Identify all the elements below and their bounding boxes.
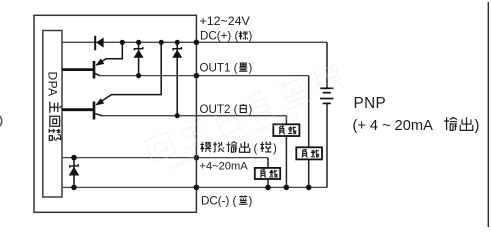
transistor Q2 emitter arrow bbox=[95, 98, 104, 105]
svg-text:OUT2 (: OUT2 ( bbox=[200, 103, 238, 116]
junction RL1 load return / DC- rail bbox=[284, 185, 290, 191]
transistor Q1 bar bbox=[93, 61, 96, 79]
label DC(-) (蓝) bbox=[201, 195, 253, 208]
transistor Q2 collector bbox=[94, 113, 102, 115]
diode D2 triangle bbox=[134, 50, 144, 58]
wire OUT1 drop to load bbox=[308, 76, 310, 188]
load box RL3 (analog) bbox=[255, 168, 280, 179]
diode D4 stem bbox=[73, 158, 75, 188]
diode D1 series on DC+ bar bbox=[94, 36, 96, 51]
diode D3 stem bbox=[176, 42, 178, 115]
diode D1 triangle bbox=[96, 38, 103, 48]
diode D2 bar bbox=[134, 47, 142, 50]
wire analog output rail bbox=[62, 157, 268, 159]
label DPA主回路 (rotated) bbox=[46, 72, 62, 141]
enclosure outer box bbox=[34, 15, 196, 212]
junction D3 top / DC+ rail bbox=[175, 40, 180, 45]
junction D3 bottom / OUT2 rail bbox=[175, 113, 180, 118]
transistor Q2 base lead bbox=[62, 108, 93, 111]
wire top rail DC+ bbox=[62, 41, 327, 43]
label 模拟输出 (橙) bbox=[200, 142, 277, 155]
load box RL1 (OUT2) bbox=[273, 124, 299, 136]
junction D2 bottom / OUT1 rail bbox=[136, 73, 141, 78]
wire analog drop to load bbox=[267, 158, 269, 188]
junction DC- terminal at enclosure edge bbox=[194, 185, 200, 191]
transistor Q1 emitter arrow bbox=[95, 59, 104, 66]
partial paren at left edge bbox=[0, 115, 2, 127]
load RL3 label 负载 bbox=[260, 170, 277, 178]
svg-text:+12~24V: +12~24V bbox=[200, 14, 251, 28]
junction D4 top / analog rail bbox=[71, 155, 77, 161]
DPA main circuit block U1 bbox=[43, 31, 62, 198]
wire OUT2 rail bbox=[102, 115, 287, 117]
label DC(+) (棕) bbox=[200, 30, 253, 43]
diode D2 stem bbox=[138, 42, 140, 75]
transistor Q1 emitter wire bbox=[97, 42, 123, 65]
battery BT1 cell bars bbox=[320, 88, 333, 103]
load RL1 label 负载 bbox=[279, 126, 296, 134]
junction RL2 load return / DC- rail bbox=[306, 185, 312, 191]
svg-text:DC(+) (: DC(+) ( bbox=[200, 30, 238, 43]
diode D4 bar bbox=[70, 164, 78, 167]
junction OUT1 terminal at enclosure edge bbox=[194, 73, 200, 79]
svg-text:DPA: DPA bbox=[46, 72, 60, 97]
svg-text:): ) bbox=[273, 142, 277, 155]
svg-text:+4~20mA: +4~20mA bbox=[200, 161, 249, 173]
svg-text:DC(-) (: DC(-) ( bbox=[201, 195, 237, 208]
wire OUT2 drop to load bbox=[285, 116, 287, 188]
svg-text:(: ( bbox=[254, 142, 258, 155]
junction D4 bottom / DC- rail bbox=[71, 185, 77, 191]
transistor Q1 collector bbox=[94, 73, 100, 76]
svg-text:OUT1 (: OUT1 ( bbox=[200, 61, 238, 74]
label (+ 4 ~ 20mA 输出) bbox=[353, 117, 480, 134]
right page border line bbox=[487, 2, 489, 227]
junction Q2 emitter / DC+ rail bbox=[159, 40, 164, 45]
diode D3 bar bbox=[173, 47, 181, 50]
diode D3 triangle bbox=[172, 50, 182, 58]
label OUT2 (白) bbox=[200, 103, 253, 116]
watermark bbox=[143, 60, 351, 176]
svg-text:): ) bbox=[249, 61, 253, 74]
svg-text:): ) bbox=[475, 118, 480, 134]
load box RL2 (OUT1) bbox=[296, 147, 322, 159]
svg-text:): ) bbox=[249, 30, 253, 43]
svg-text:(+ 4 ~ 20mA: (+ 4 ~ 20mA bbox=[353, 118, 434, 134]
junction DC+ terminal at enclosure edge bbox=[194, 40, 200, 46]
svg-text:PNP: PNP bbox=[354, 95, 387, 112]
transistor Q1 base lead bbox=[62, 68, 93, 71]
svg-text:): ) bbox=[249, 195, 253, 208]
load RL2 label 负载 bbox=[302, 150, 319, 158]
junction D2 anode-top / DC+ rail bbox=[136, 40, 141, 45]
diode D4 triangle bbox=[69, 167, 80, 176]
wire OUT1 rail bbox=[99, 75, 309, 77]
wire DC- rail bbox=[62, 186, 327, 188]
transistor Q2 bar bbox=[93, 102, 96, 120]
label OUT1 (黑) bbox=[200, 61, 253, 74]
transistor Q2 emitter wire bbox=[97, 42, 162, 104]
junction RL3 load return / DC- rail bbox=[265, 185, 271, 191]
wire battery drop from DC+ bbox=[326, 42, 328, 187]
junction Q1 emitter / DC+ rail bbox=[120, 40, 125, 45]
junction analog terminal at enclosure edge bbox=[194, 155, 200, 161]
